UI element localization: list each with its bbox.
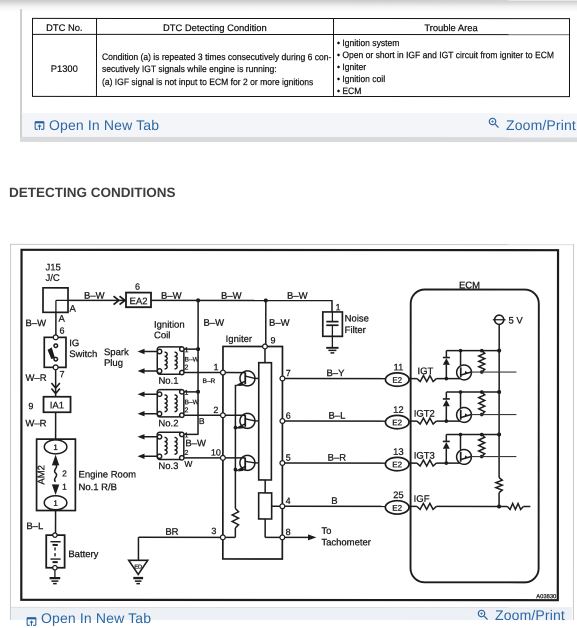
svg-text:2: 2: [213, 405, 218, 415]
svg-text:BR: BR: [165, 527, 178, 538]
igniter power transistor Q3: [225, 455, 258, 471]
igniter pin 3 terminal: [220, 535, 225, 540]
junction dot emitter Q2: [234, 426, 238, 430]
wire igniter to ECM IGT (B&#8211;Y): [285, 377, 386, 379]
svg-text:W: W: [184, 459, 192, 469]
svg-text:Noise: Noise: [345, 314, 369, 325]
svg-text:No.2: No.2: [158, 418, 178, 429]
wire coil No.3 pin1 to bus: [184, 433, 198, 435]
wire coil supply bus vertical B-W: [197, 300, 199, 434]
svg-text:B: B: [331, 496, 337, 507]
spark plug arrow No.1 bottom: [138, 368, 158, 373]
svg-text:5: 5: [286, 453, 291, 463]
DTC table: [31, 18, 569, 97]
connector E2 (IGT row): [385, 373, 409, 386]
svg-text:EA2: EA2: [130, 296, 148, 307]
junction dot diode to signal (U3): [444, 461, 448, 465]
svg-text:Filter: Filter: [345, 325, 366, 336]
svg-text:A: A: [58, 314, 65, 325]
svg-text:B–W: B–W: [185, 399, 200, 406]
IG switch lever: [48, 347, 55, 359]
svg-text:IA1: IA1: [50, 400, 64, 411]
svg-text:B–Y: B–Y: [326, 368, 345, 379]
junction dot resistor rail (U1): [480, 349, 484, 353]
capacitor inside noise filter: [326, 312, 338, 336]
ECM box: [411, 289, 539, 582]
label Noise Filter: [345, 314, 369, 337]
junction dot emitter Q3: [234, 468, 238, 472]
connector IA1: [44, 397, 71, 413]
wire noise filter to ground: [331, 336, 333, 347]
resistor IGF series: [507, 503, 523, 509]
svg-text:Plug: Plug: [104, 358, 123, 369]
svg-text:No.3: No.3: [158, 461, 178, 472]
wire relay block to battery: [55, 511, 57, 535]
junction dot 5V at IGT2 cell: [497, 390, 501, 394]
spark plug arrow No.1 top: [138, 349, 158, 354]
svg-text:1: 1: [213, 362, 218, 372]
junction dot resistor to emitter (U1): [480, 370, 484, 374]
igniter pin 1 terminal: [221, 370, 226, 375]
junction connector J15 J/C label: [46, 262, 61, 284]
resistor after E2 (IGF row): [409, 503, 436, 509]
svg-text:Igniter: Igniter: [226, 334, 252, 345]
spark plug arrow No.2 top: [138, 391, 158, 396]
label Engine Room No.1 R/B: [78, 469, 136, 493]
svg-text:B–W: B–W: [203, 318, 224, 329]
svg-text:B–W: B–W: [269, 318, 290, 329]
svg-text:No.1: No.1: [158, 376, 178, 387]
resistor pull (U2): [479, 392, 485, 415]
label Ignition Coil: [154, 320, 185, 342]
svg-text:B–W: B–W: [221, 291, 242, 302]
svg-text:B–W: B–W: [25, 318, 46, 329]
IG switch terminal top: [53, 335, 58, 340]
igniter internal wire output to pin8: [265, 519, 280, 537]
svg-text:9: 9: [28, 401, 33, 411]
svg-text:J/C: J/C: [46, 273, 60, 284]
wire pin8 to tachometer: [285, 536, 309, 538]
connector E2 (IGT2 row): [385, 415, 409, 428]
svg-text:B–W: B–W: [185, 438, 206, 449]
svg-text:1: 1: [335, 302, 340, 312]
resistor after E2 (IGT3 row): [409, 460, 436, 466]
svg-text:1: 1: [62, 482, 67, 492]
svg-text:W–R: W–R: [25, 418, 46, 429]
ECM cell top rail (U3): [446, 434, 499, 436]
igniter driver stage block: [259, 363, 272, 480]
junction dot 5V at IGT cell: [497, 349, 501, 353]
J15 internal link: [56, 300, 68, 312]
svg-text:1: 1: [53, 443, 58, 452]
svg-text:Battery: Battery: [68, 549, 98, 560]
junction node igniter bus: [264, 298, 268, 302]
igniter pin 10 terminal: [220, 455, 225, 460]
wire coil No.1 pin1 to bus: [184, 348, 198, 350]
ignition coil No.3 body: [157, 432, 184, 459]
svg-text:No.1 R/B: No.1 R/B: [78, 482, 117, 493]
svg-text:Spark: Spark: [104, 347, 129, 358]
ignition coil No.1 body: [157, 347, 184, 374]
connector arrows into IA1: [51, 383, 59, 394]
svg-text:B: B: [199, 416, 205, 426]
label Spark Plug: [104, 347, 129, 369]
wire coil No.2 pin1 to bus: [184, 391, 198, 393]
label IG Switch: [69, 338, 97, 360]
wire EA2 to noise filter (top B-W bus): [151, 299, 332, 301]
svg-text:6: 6: [135, 282, 140, 292]
svg-text:B–L: B–L: [328, 411, 345, 422]
fuse AM2 arrow up: [52, 455, 59, 466]
svg-text:IGT: IGT: [417, 366, 433, 377]
svg-text:6: 6: [59, 326, 64, 336]
wire emitter line (U2): [471, 414, 516, 416]
noise filter N1 box: [323, 312, 343, 336]
svg-text:To: To: [321, 526, 331, 537]
junction dot diode to signal (U2): [445, 419, 449, 423]
ignition coil No.2 body: [157, 390, 184, 417]
igniter emitter bus: [234, 385, 236, 509]
igniter internal wire pin9 to driver: [264, 349, 266, 363]
junction dot 5V at IGT3 cell: [497, 433, 501, 437]
ground (battery): [50, 578, 61, 584]
IG switch SW1 box: [44, 337, 66, 367]
svg-text:Ignition: Ignition: [154, 320, 185, 331]
resistor pull (U3): [479, 435, 485, 457]
svg-text:E2: E2: [392, 504, 402, 513]
junction dot collector rail (U2): [459, 390, 463, 394]
top gradient strip: [0, 0, 577, 12]
igniter pin 6 terminal: [280, 419, 285, 424]
svg-text:IGF: IGF: [414, 494, 430, 505]
battery terminal bottom: [53, 566, 57, 570]
svg-text:AM2: AM2: [36, 465, 47, 485]
wire coil No.2 pin2 to igniter pin2: [184, 414, 221, 416]
bottom link bar: [11, 606, 572, 619]
wire resistor to IGF node: [498, 493, 500, 507]
svg-text:B–W: B–W: [185, 357, 200, 364]
spark plug arrow No.2 bottom: [138, 411, 158, 416]
igniter power transistor Q1: [225, 371, 258, 386]
junction dot collector rail (U1): [459, 349, 463, 353]
wire coil No.1 pin2 to igniter pin1: [184, 372, 221, 374]
svg-text:Coil: Coil: [154, 330, 170, 341]
junction dot resistor to emitter (U3): [480, 455, 484, 459]
junction connector J15 box: [43, 288, 68, 313]
coil No.3 terminal circles: [157, 432, 184, 460]
ECM transistor (U3): [457, 435, 472, 465]
wire emitter line (U1): [471, 371, 516, 373]
wire coil No.3 pin2 to igniter pin10: [184, 457, 221, 459]
wire signal to transistor base (U3): [436, 462, 460, 464]
junction node coil bus: [196, 298, 200, 302]
ground (noise filter): [326, 348, 338, 353]
wire IGF to node: [436, 505, 499, 507]
battery BAT box: [46, 535, 64, 568]
connector E2 (IGF row): [385, 501, 409, 514]
igniter power transistor Q2: [225, 413, 258, 429]
svg-text:2: 2: [185, 365, 189, 372]
igniter pin 4 terminal: [280, 504, 285, 509]
svg-text:E2: E2: [392, 460, 402, 469]
resistor after E2 (IGT2 row): [409, 418, 436, 424]
junction dot coil No.1 feed: [196, 347, 200, 351]
igniter pin 7 terminal: [280, 376, 285, 381]
connector E2 (IGT3 row): [385, 457, 409, 470]
svg-text:B–R: B–R: [202, 378, 215, 385]
R/B terminal 1 bottom: [44, 496, 67, 510]
R/B terminal 1 top: [44, 440, 67, 454]
spark plug arrow No.3 top: [138, 434, 158, 439]
IG switch contact top: [54, 344, 58, 348]
junction dot IGF node: [497, 504, 501, 508]
label To Tachometer: [321, 526, 371, 549]
heading: [9, 184, 176, 199]
fuse AM2 arrow down: [52, 484, 59, 495]
igniter pin 9 terminal: [263, 344, 268, 349]
svg-text:B–L: B–L: [26, 521, 43, 532]
svg-text:IGT3: IGT3: [414, 451, 435, 462]
relay block box Engine Room No.1 R/B: [37, 439, 76, 510]
resistor after E2 (IGT row): [409, 376, 436, 382]
fuse AM2 element: [55, 464, 57, 481]
resistor pull (U1): [479, 351, 485, 372]
ground hatch (ED): [133, 578, 143, 584]
wire IG switch to IA1: [55, 370, 57, 397]
svg-text:B–W: B–W: [161, 291, 182, 302]
svg-text:3: 3: [211, 526, 216, 536]
junction dot resistor rail (U3): [480, 433, 484, 437]
wire emitter line (U3): [471, 456, 516, 458]
svg-text:2: 2: [184, 450, 188, 457]
ECM cell top rail (U2): [446, 391, 499, 393]
wire signal to transistor base (U2): [436, 420, 460, 422]
battery terminal top: [53, 533, 57, 537]
schematic frame: [21, 250, 558, 600]
svg-text:6: 6: [286, 411, 291, 421]
svg-text:2: 2: [185, 407, 189, 414]
junction dot resistor rail (U2): [480, 390, 484, 394]
igniter pin 5 terminal: [280, 461, 285, 466]
arrow to tachometer: [308, 534, 316, 540]
svg-text:W–R: W–R: [25, 373, 46, 384]
svg-text:Tachometer: Tachometer: [321, 537, 371, 548]
svg-text:5 V: 5 V: [508, 315, 523, 326]
junction dot diode to signal (U1): [445, 377, 449, 381]
connector arrows into EA2: [114, 296, 126, 304]
igniter pin 2 terminal: [221, 413, 226, 418]
igniter internal wire driver to output stage: [264, 480, 266, 493]
diode D (U2): [443, 392, 450, 421]
svg-text:25: 25: [393, 490, 404, 501]
wire igniter to ECM IGT3 (B&#8211;R): [285, 462, 386, 464]
svg-text:8: 8: [286, 527, 291, 537]
svg-text:Switch: Switch: [69, 349, 97, 360]
wire IGF node to resistor: [499, 505, 507, 507]
svg-text:B–R: B–R: [328, 453, 347, 464]
resistor 5V bus to IGF node: [496, 478, 502, 493]
svg-text:7: 7: [286, 368, 291, 378]
svg-text:1: 1: [185, 347, 189, 354]
wire to noise filter: [331, 300, 333, 312]
svg-text:J15: J15: [46, 262, 61, 273]
wire igniter to ECM IGT2 (B&#8211;L): [285, 420, 386, 422]
spark plug arrow No.3 bottom: [137, 454, 157, 459]
igniter internal wire output to pin4: [272, 505, 280, 507]
wire battery to ground: [54, 570, 56, 578]
wire J15 to EA2 B-W: [68, 299, 126, 301]
wire IGF resistor stub: [523, 505, 530, 507]
svg-text:Engine Room: Engine Room: [78, 469, 136, 480]
svg-text:10: 10: [211, 447, 221, 457]
svg-text:1: 1: [53, 499, 58, 508]
svg-text:B–W: B–W: [84, 291, 105, 302]
svg-text:9: 9: [270, 335, 275, 345]
svg-text:IGT2: IGT2: [414, 409, 435, 420]
wire 5V bus: [498, 324, 500, 477]
top link bar: [21, 112, 577, 137]
separator strip: [20, 137, 577, 142]
svg-text:E2: E2: [392, 418, 402, 427]
ground ED triangle: [129, 560, 148, 574]
5V power symbol: [493, 315, 524, 326]
battery cells: [50, 542, 60, 562]
diode D (U1): [443, 351, 450, 379]
IG switch terminal bottom: [53, 365, 58, 370]
svg-text:IG: IG: [69, 338, 79, 349]
diode D (U3): [443, 435, 450, 464]
diagram container: [10, 243, 574, 619]
coil No.1 terminal circles: [157, 347, 184, 375]
ECM cell top rail (U1): [446, 350, 499, 352]
igniter output stage block: [259, 493, 272, 519]
igniter box: [223, 346, 283, 559]
junction dot resistor to emitter (U2): [480, 413, 484, 417]
svg-text:4: 4: [286, 496, 291, 506]
svg-text:1: 1: [185, 390, 189, 397]
svg-text:A03830: A03830: [536, 594, 556, 600]
igniter resistor to pin3: [232, 508, 238, 528]
svg-text:7: 7: [59, 369, 64, 379]
svg-text:B–W: B–W: [287, 291, 308, 302]
connector EA2: [126, 293, 151, 308]
ECM transistor (U1): [457, 351, 472, 380]
svg-text:ED: ED: [134, 564, 142, 570]
wire igniter pin3 BR to ground: [138, 537, 220, 560]
left pane border (top section): [20, 9, 22, 141]
junction dot collector rail (U3): [459, 433, 463, 437]
wire igniter to ECM IGF (B): [285, 505, 386, 507]
wire IA1 to relay block: [55, 412, 57, 439]
coil No.2 terminal circles: [157, 390, 184, 418]
svg-text:11: 11: [394, 362, 404, 373]
igniter internal wire resistor to pin3: [225, 528, 236, 537]
ECM transistor (U2): [457, 392, 472, 422]
wire igniter pin9 bus vertical B-W: [265, 300, 267, 346]
svg-text:13: 13: [393, 447, 404, 458]
svg-text:A: A: [69, 304, 76, 315]
wire signal to transistor base (U1): [436, 378, 460, 380]
svg-text:12: 12: [393, 405, 404, 416]
wire J15 to IG switch: [55, 312, 57, 335]
igniter pin 8 terminal: [280, 535, 285, 540]
svg-text:2: 2: [62, 468, 67, 478]
svg-text:E2: E2: [392, 376, 402, 385]
IG switch contact bottom: [54, 357, 58, 361]
junction dot coil No.2 feed: [196, 390, 200, 394]
